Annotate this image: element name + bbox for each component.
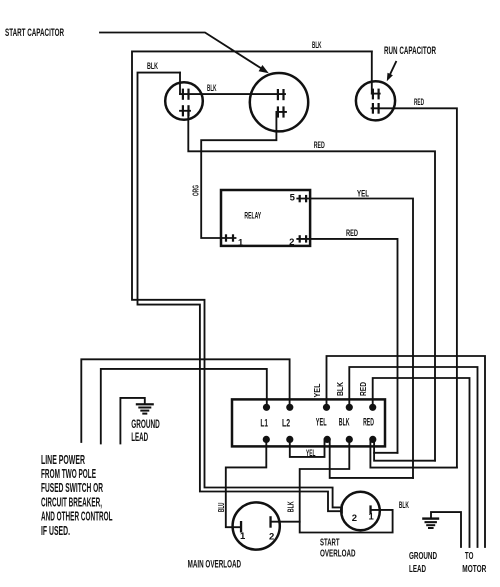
svg-text:BLK: BLK — [286, 501, 295, 512]
svg-text:CIRCUIT BREAKER,: CIRCUIT BREAKER, — [41, 495, 102, 509]
svg-text:2: 2 — [269, 531, 274, 542]
svg-text:LEAD: LEAD — [409, 564, 426, 575]
svg-text:L1: L1 — [260, 417, 268, 429]
svg-text:GROUND: GROUND — [131, 417, 160, 431]
svg-text:YEL: YEL — [306, 448, 316, 458]
svg-text:BLK: BLK — [147, 61, 158, 71]
svg-text:FUSED SWITCH OR: FUSED SWITCH OR — [41, 481, 103, 495]
svg-text:1: 1 — [238, 238, 244, 249]
svg-text:BLK: BLK — [339, 417, 350, 429]
svg-text:RED: RED — [359, 382, 368, 396]
svg-text:OVERLOAD: OVERLOAD — [320, 548, 356, 559]
svg-text:YEL: YEL — [316, 417, 327, 429]
svg-text:2: 2 — [352, 513, 357, 524]
svg-text:2: 2 — [289, 237, 294, 248]
svg-text:LINE POWER: LINE POWER — [41, 453, 85, 467]
svg-text:L2: L2 — [282, 417, 290, 429]
svg-text:AND OTHER CONTROL: AND OTHER CONTROL — [41, 510, 113, 524]
svg-text:FROM TWO POLE: FROM TWO POLE — [41, 467, 96, 481]
svg-text:YEL: YEL — [357, 189, 369, 199]
svg-text:RELAY: RELAY — [244, 211, 261, 222]
svg-text:START CAPACITOR: START CAPACITOR — [5, 27, 64, 39]
svg-text:5: 5 — [290, 192, 296, 203]
svg-text:1: 1 — [369, 511, 375, 522]
svg-text:YEL: YEL — [313, 383, 322, 397]
svg-text:ORG: ORG — [192, 185, 201, 196]
svg-text:MOTOR: MOTOR — [462, 564, 486, 575]
svg-text:BLK: BLK — [207, 83, 217, 93]
svg-text:BLK: BLK — [336, 382, 345, 396]
svg-text:RED: RED — [363, 417, 374, 429]
svg-text:RED: RED — [346, 228, 358, 238]
svg-text:RED: RED — [414, 97, 424, 107]
svg-text:MAIN OVERLOAD: MAIN OVERLOAD — [188, 558, 242, 570]
svg-text:GROUND: GROUND — [409, 551, 437, 562]
svg-text:BLK: BLK — [399, 500, 409, 510]
svg-text:BLK: BLK — [312, 40, 322, 50]
svg-text:1: 1 — [240, 531, 246, 542]
svg-text:IF USED.: IF USED. — [41, 524, 70, 538]
svg-text:LEAD: LEAD — [131, 430, 148, 444]
svg-text:TO: TO — [465, 551, 474, 562]
svg-text:RUN CAPACITOR: RUN CAPACITOR — [384, 45, 436, 57]
svg-text:BLU: BLU — [217, 502, 226, 512]
svg-text:RED: RED — [314, 140, 325, 150]
svg-text:START: START — [320, 537, 340, 548]
